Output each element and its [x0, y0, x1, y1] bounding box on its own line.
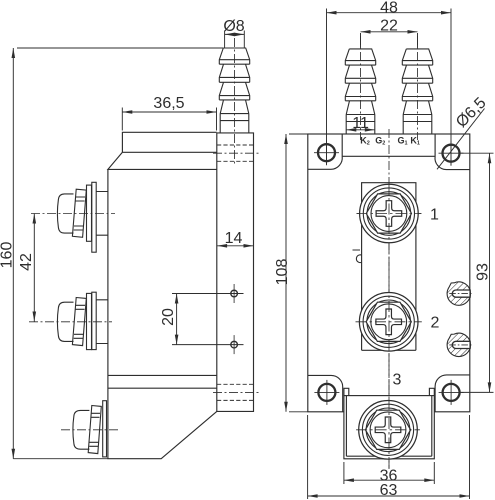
svg-text:48: 48 [380, 0, 398, 17]
svg-text:160: 160 [0, 242, 16, 269]
svg-text:22: 22 [380, 18, 398, 35]
svg-text:36,5: 36,5 [153, 95, 184, 112]
svg-text:63: 63 [380, 482, 398, 499]
svg-text:14: 14 [225, 230, 243, 247]
svg-text:1: 1 [430, 207, 439, 224]
svg-text:3: 3 [393, 372, 402, 389]
svg-text:11: 11 [352, 115, 369, 132]
svg-text:Ø8: Ø8 [223, 18, 244, 35]
svg-text:42: 42 [18, 253, 35, 271]
svg-text:20: 20 [160, 308, 177, 326]
svg-text:108: 108 [274, 259, 291, 286]
svg-text:93: 93 [475, 263, 492, 281]
svg-text:2: 2 [431, 315, 440, 332]
